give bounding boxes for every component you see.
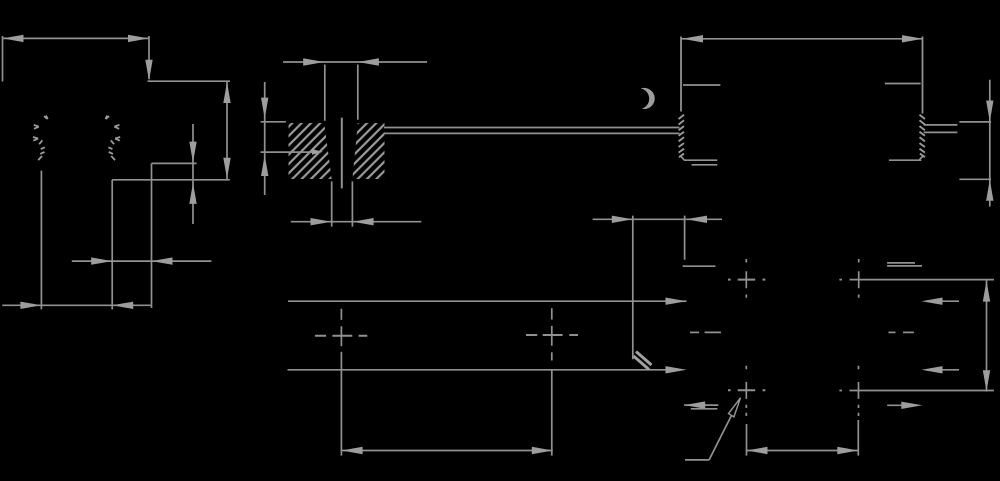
bottom view: hole spacing dim line y450.5 bbox=[747, 450, 859, 452]
shaft: upper line bbox=[384, 127, 680, 129]
body shoulder tick left bbox=[683, 84, 720, 86]
arrow right at x686.5 y301 (body left edge) bbox=[666, 298, 687, 305]
arrow right at x41 on y305 dim bbox=[20, 302, 41, 309]
arrow down at x989.8 above y121.9 bbox=[986, 101, 993, 122]
panel: bottom dim line y221.7 bbox=[291, 221, 422, 223]
wire hook crescent bbox=[641, 88, 655, 109]
left view: left extension line bbox=[2, 36, 4, 82]
bottom view: top edge right segment bbox=[887, 265, 922, 267]
body bottom edge right segment bbox=[889, 159, 921, 161]
right vertical dim line x989.8 bbox=[989, 80, 991, 207]
leader diagonal line bbox=[709, 416, 731, 460]
arrow down at x227 bottom bbox=[223, 158, 230, 179]
arrow right at x324 on y62 dim bbox=[303, 58, 324, 65]
body bottom edge left segment bbox=[684, 159, 717, 161]
bottom view: TR cross horizontal extended bbox=[839, 279, 994, 281]
arrow left at x341.6 on y450.5 dim bbox=[342, 447, 363, 454]
arrow left at x686 on y219.3 dim bbox=[686, 216, 707, 223]
arrow left at x151 on y261 dim bbox=[152, 257, 173, 264]
bracket hole C1 vertical centerline bbox=[340, 309, 342, 346]
bracket hole C2 extension to bottom dim bbox=[551, 370, 553, 456]
arrow left at bottom edge left corner bbox=[684, 401, 705, 408]
arrow left at x681 on body width dim bbox=[682, 35, 703, 42]
bottom view: right width arrow tail y369.8 bbox=[926, 369, 959, 371]
bottom view: BL cross vertical bbox=[745, 366, 747, 416]
bottom view: BR cross vertical bbox=[858, 366, 860, 416]
arrow up at x989.8 below y179.3 bbox=[986, 180, 993, 201]
bracket hole C1 horizontal centerline bbox=[315, 335, 367, 337]
thread zigzag on body left edge bbox=[679, 115, 684, 158]
panel: left dim vertical line x264 bbox=[264, 82, 266, 195]
arrow right at x112 on y261 dim bbox=[91, 257, 112, 264]
panel: ref/leader line y152 into hatch bbox=[261, 151, 317, 153]
leader hollow arrowhead bbox=[729, 398, 741, 417]
left view: leg line x151 bbox=[151, 163, 153, 308]
panel: top dim extension line x324 bbox=[324, 65, 326, 121]
bottom view: bottom edge left stub lower bbox=[691, 408, 718, 410]
left view: leg line x112 bbox=[111, 180, 113, 310]
left view: vertical dim line x227 bbox=[226, 82, 228, 180]
bottom view: hidden dash left pair bbox=[690, 331, 699, 333]
panel section: left hatched trapezoid bbox=[289, 123, 332, 179]
arrow left at x921.5 y369.8 (body right edge) bbox=[922, 366, 943, 373]
left view: vertical dim line x193 bbox=[192, 124, 194, 224]
left view: ref line y180 bbox=[112, 179, 230, 181]
thread zigzag on body right edge bbox=[920, 115, 925, 158]
panel: bottom dim extension line x352.4 bbox=[351, 181, 353, 226]
arrow left at x112 on y305 dim bbox=[112, 302, 133, 309]
bottom view: hidden dash right pair bbox=[888, 331, 895, 333]
arrow right at bottom edge right corner bbox=[901, 402, 922, 409]
left view: top width dimension line bbox=[3, 37, 150, 39]
left view: top step horizontal line bbox=[148, 80, 231, 82]
small arrow right at end of y152 leader bbox=[312, 149, 323, 155]
arrow right at x923 on body width dim bbox=[902, 35, 923, 42]
panel: center slot line x341.8 bbox=[341, 118, 343, 189]
arrow left at x352.6 on y221.7 dim bbox=[353, 218, 374, 225]
bottom view: bottom edge left segment with arrow bbox=[684, 404, 718, 406]
panel: ref line y121.8 bbox=[261, 121, 286, 123]
body shoulder tick right bbox=[885, 83, 921, 85]
arrow down at x264 (above y121.8) bbox=[261, 98, 268, 119]
stem top line bbox=[924, 124, 958, 126]
left view: leg line x41 bbox=[40, 171, 42, 310]
left view: right extension/step line bbox=[148, 36, 150, 79]
left view: lower dim line y261 bbox=[72, 260, 212, 262]
bottom view: TL cross vertical bbox=[745, 259, 747, 298]
panel: top dim extension line x357 bbox=[357, 65, 359, 120]
bottom view: bottom edge right segment bbox=[887, 404, 910, 406]
left view: bottom dim line y305 bbox=[2, 304, 150, 306]
bottom view: right width arrow tail y301 bbox=[926, 300, 959, 302]
extension line x632.8 from hook bbox=[632, 216, 634, 360]
bracket hole C2 horizontal centerline bbox=[526, 334, 578, 336]
arrow up at x986.5 top of bottom-view dim bbox=[983, 281, 990, 302]
arrow down at x986.5 bottom of bottom-view dim bbox=[983, 370, 990, 391]
bracket hole C1 extension to bottom dim bbox=[340, 352, 342, 456]
bottom view: top edge left segment bbox=[683, 265, 716, 267]
bottom view: BR cross vertical extension bbox=[857, 420, 859, 456]
bottom view: TL cross horizontal bbox=[728, 279, 765, 281]
arrow up at x193 (below y180) bbox=[189, 183, 196, 204]
arrow right at x331.7 on y221.7 dim bbox=[311, 218, 332, 225]
body bottom left corner slant bbox=[681, 157, 685, 161]
break mark double slash on bracket bbox=[634, 352, 652, 370]
arrow right tip of top width dim bbox=[128, 35, 149, 42]
bottom view: TR cross vertical bbox=[858, 259, 860, 298]
bottom view: BL cross vertical extension bbox=[746, 424, 748, 456]
arrow right at x632.8 on y219.3 dim bbox=[612, 216, 633, 223]
arrow down at x193 (above y163) bbox=[189, 142, 196, 163]
body bottom edge left stub bbox=[692, 164, 718, 166]
arrow left tip of top width dim bbox=[3, 35, 24, 42]
leader stub horizontal bbox=[685, 459, 709, 461]
stem bottom line bbox=[924, 131, 958, 133]
bracket bottom edge line y369.8 bbox=[288, 369, 672, 371]
body top edge / width dim line y38.8 bbox=[681, 38, 923, 40]
left dashed circle marks (left shape) bbox=[33, 116, 48, 161]
body bottom right corner slant bbox=[919, 157, 923, 161]
panel section: right hatched trapezoid bbox=[352, 123, 384, 179]
bottom view: top edge right stub upper bbox=[887, 262, 915, 264]
arrow up at x264 (below y152) bbox=[261, 155, 268, 176]
body right edge upper solid bbox=[922, 37, 924, 114]
arrow left at x357.9 on y62 dim bbox=[358, 58, 379, 65]
stem ref line y179.3 bbox=[959, 178, 991, 180]
arrow right at x552.8 on y450.5 dim bbox=[532, 447, 553, 454]
bottom view: right vertical dim line x986.5 bbox=[986, 280, 988, 391]
arrow left at x921.5 y301 (body right edge) bbox=[922, 298, 943, 305]
bracket hole spacing dim line y450.5 bbox=[342, 450, 553, 452]
shaft: lower line bbox=[384, 132, 680, 134]
arrow up at x227 top bbox=[223, 82, 230, 103]
bottom view: left width arrow tail y301 bbox=[671, 300, 687, 302]
right dashed circle marks (right shape) bbox=[106, 116, 121, 161]
arrow right at x858.3 on y450.5 dim bbox=[837, 447, 858, 454]
panel: bottom dim extension line x331.7 bbox=[331, 181, 333, 226]
panel: top dim line y62 bbox=[283, 61, 427, 63]
bottom view: BL cross horizontal bbox=[728, 389, 765, 391]
body left edge upper solid bbox=[680, 37, 682, 112]
bottom view: BR cross horizontal extended bbox=[839, 390, 994, 392]
stem ref line y121.9 bbox=[959, 121, 991, 123]
arrow down at x149 step bbox=[145, 60, 152, 81]
bracket hole C2 vertical centerline bbox=[551, 308, 553, 360]
left view: small dim ref line y163 bbox=[152, 162, 197, 164]
wire hook dim line y219.3 bbox=[593, 218, 722, 220]
arrow right at x686.5 y369.8 (body left edge) bbox=[666, 366, 687, 373]
arrow left at x746.5 on y450.5 dim bbox=[747, 447, 768, 454]
bracket top edge line y301 bbox=[288, 300, 671, 302]
extension line x684.6 body left bbox=[684, 216, 686, 260]
